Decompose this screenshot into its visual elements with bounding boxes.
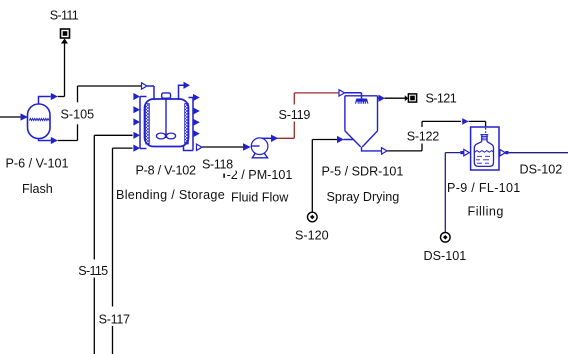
svg-text:Blending / Storage: Blending / Storage — [116, 188, 225, 202]
svg-text:Flash: Flash — [22, 182, 53, 196]
svg-text:S-121: S-121 — [426, 92, 457, 106]
svg-text:S-118: S-118 — [202, 158, 233, 172]
svg-text:S-115: S-115 — [78, 264, 108, 278]
svg-text:P-9 / FL-101: P-9 / FL-101 — [447, 181, 521, 195]
svg-text:S-119: S-119 — [279, 108, 311, 122]
svg-text:S-120: S-120 — [295, 229, 329, 243]
svg-text:Fluid Flow: Fluid Flow — [231, 191, 289, 205]
svg-text:DS-102: DS-102 — [520, 163, 563, 177]
svg-text:S-117: S-117 — [99, 313, 130, 327]
svg-text:P-8 / V-102: P-8 / V-102 — [136, 164, 197, 178]
svg-text:Spray Drying: Spray Drying — [327, 190, 400, 204]
svg-text:P-6 / V-101: P-6 / V-101 — [6, 157, 69, 171]
svg-text:DS-101: DS-101 — [424, 249, 467, 263]
svg-text:S-105: S-105 — [61, 108, 95, 122]
svg-text:-2 / PM-101: -2 / PM-101 — [227, 168, 293, 182]
svg-text:Filling: Filling — [468, 205, 504, 219]
svg-text:P-5 / SDR-101: P-5 / SDR-101 — [322, 165, 404, 179]
svg-text:S-122: S-122 — [407, 130, 439, 144]
svg-text:S-111: S-111 — [50, 9, 79, 23]
